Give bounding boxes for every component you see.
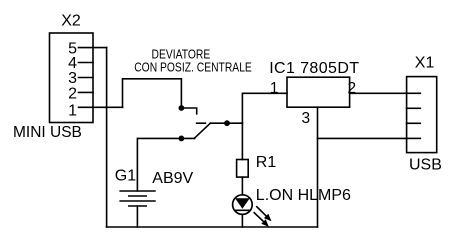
wire pin3 branch to X1 [318, 137, 407, 139]
wire R1 to LED [241, 177, 243, 195]
LED arrow 1 head [264, 214, 272, 222]
IC1 box [287, 77, 350, 107]
svg-text:R1: R1 [256, 154, 277, 171]
LED arrow 2 shaft [254, 213, 263, 222]
X1 pin tick 1 [407, 92, 421, 94]
svg-text:IC1 7805DT: IC1 7805DT [269, 60, 359, 77]
junction dot upper switch contact [179, 105, 185, 111]
battery G1 plates [120, 191, 155, 206]
wire IC1 pin3 down to rail [317, 107, 319, 227]
X2 pin 4 stub [79, 62, 94, 64]
X2 pin 3 stub [79, 77, 94, 79]
X1 pin tick 4 [407, 137, 421, 139]
svg-text:CON POSIZ. CENTRALE: CON POSIZ. CENTRALE [134, 61, 252, 74]
svg-text:2: 2 [68, 85, 77, 102]
svg-text:2: 2 [348, 80, 357, 97]
LED triangle [235, 198, 250, 209]
LED D1 circle [233, 195, 253, 215]
wire pin5 to ground rail [106, 48, 108, 227]
svg-text:G1: G1 [115, 168, 136, 185]
svg-text:MINI USB: MINI USB [13, 124, 82, 141]
connector X2 box [50, 33, 94, 123]
junction dot switch pole [224, 120, 230, 126]
svg-text:1: 1 [270, 80, 279, 97]
svg-text:AB9V: AB9V [152, 170, 193, 187]
resistor R1 body [237, 160, 249, 178]
wire switch upper contact hook [181, 108, 196, 114]
svg-text:USB: USB [409, 157, 442, 174]
battery G1 bottom stub [136, 206, 138, 227]
wire switch pole to node [210, 122, 242, 124]
svg-text:X1: X1 [415, 55, 435, 72]
svg-text:3: 3 [302, 110, 311, 127]
X1 pin tick 3 [407, 122, 421, 124]
LED cathode bar [235, 209, 250, 211]
ground rail [107, 226, 318, 228]
svg-text:L.ON HLMP6: L.ON HLMP6 [256, 187, 351, 204]
X2 pin 5 stub [79, 47, 107, 49]
wire IC1 pin2 to X1 [350, 92, 407, 94]
X2 pin 1 stub [79, 106, 123, 108]
X1 pin tick 2 [407, 107, 421, 109]
svg-text:DEVIATORE: DEVIATORE [152, 49, 211, 62]
svg-text:1: 1 [68, 102, 77, 119]
X2 pin 2 stub [79, 91, 94, 93]
svg-text:X2: X2 [61, 13, 81, 30]
LED arrow 1 shaft [257, 207, 266, 216]
wire pin1 up-over to switch upper contact [123, 79, 182, 108]
connector X1 box [407, 77, 437, 153]
wire LED to ground rail [241, 214, 243, 227]
junction dot lower switch contact [179, 136, 185, 142]
wire node up to IC1 pin1 [242, 93, 287, 159]
LED arrow 2 head [261, 219, 269, 227]
switch center-position dash [197, 122, 206, 124]
wire battery+ to switch lower contact [137, 138, 194, 191]
switch lever [194, 123, 210, 138]
